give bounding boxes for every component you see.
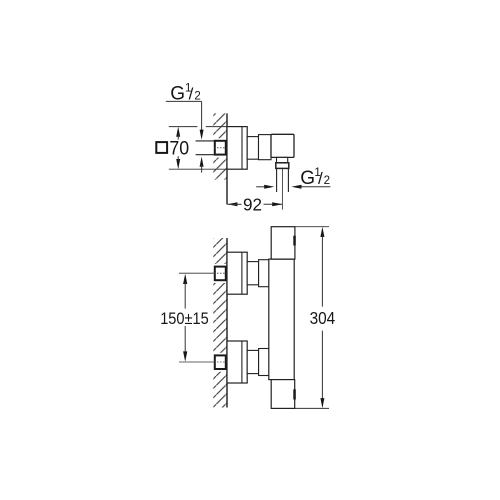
- G 1/2 outlet dimension arrows: [256, 185, 330, 189]
- arrow up to inlet: [200, 157, 204, 173]
- svg-text:70: 70: [169, 138, 189, 160]
- shaft section 1 (top drawing): [247, 137, 258, 160]
- shaft section 1 (lower): [247, 350, 258, 373]
- label G 1/2 (right): [300, 167, 330, 189]
- white clearance around upper nipple: [212, 264, 227, 283]
- shaft section 2 (lower): [259, 349, 270, 376]
- extension line 304 bottom: [295, 407, 329, 409]
- button top cap: [293, 236, 296, 246]
- dimension 92 line left: [227, 202, 241, 206]
- wall surface line (top drawing): [226, 113, 228, 204]
- shaft section 2 (upper): [259, 260, 270, 287]
- shaft section 1 (upper): [247, 262, 258, 285]
- leader line of G 1/2 (top): [166, 101, 202, 131]
- valve body square (top drawing): [271, 134, 294, 157]
- arrow down to inlet: [200, 130, 204, 140]
- svg-text:G: G: [300, 168, 315, 189]
- supply pipe stub in wall: [196, 141, 215, 155]
- label 92: [243, 194, 262, 214]
- dimension extension line, 70 top: [169, 126, 198, 128]
- flange escutcheon (top drawing): [227, 127, 247, 170]
- center line upper connection: [179, 272, 214, 274]
- svg-text:/: /: [318, 169, 323, 188]
- arrow up, 70 dimension: [176, 127, 180, 140]
- flange escutcheon (upper): [227, 252, 247, 294]
- shaft section 2 (top drawing): [259, 135, 272, 160]
- label 304: [310, 308, 336, 328]
- svg-text:304: 304: [310, 308, 336, 328]
- inlet nipple square (upper): [214, 267, 229, 281]
- wall surface line (bottom drawing): [226, 238, 228, 408]
- wall hatch (bottom drawing): [213, 238, 226, 408]
- dimension extension line, 70 bottom: [169, 168, 227, 170]
- square symbol of label 70: [156, 142, 167, 153]
- svg-text:2: 2: [324, 175, 330, 187]
- label G 1/2 (top): [170, 82, 201, 104]
- mixer body top cap: [271, 227, 295, 259]
- center line lower connection: [179, 361, 214, 363]
- outlet pipe center line: [281, 169, 283, 210]
- svg-text:/: /: [189, 84, 194, 103]
- mixer body main column: [269, 259, 294, 380]
- svg-text:150±15: 150±15: [160, 310, 209, 328]
- outlet step below valve: [277, 157, 288, 162]
- svg-text:2: 2: [194, 90, 200, 102]
- inlet nipple square (lower): [214, 355, 229, 369]
- dimension 92 line right: [264, 202, 283, 206]
- arrow down, 70 dimension: [176, 156, 180, 169]
- outlet nut: [276, 163, 289, 169]
- wall hatch (top drawing): [213, 113, 226, 179]
- label 70: [169, 138, 189, 160]
- extension line 304 top: [295, 226, 329, 228]
- outlet pipe: [277, 168, 289, 192]
- dimension 150±15 arrows and line: [183, 274, 187, 362]
- label 150±15: [160, 310, 209, 328]
- inlet nipple square (top drawing): [214, 141, 229, 155]
- flange escutcheon (lower): [227, 341, 247, 383]
- mixer body bottom cap: [271, 380, 295, 409]
- dimension 304 line and arrows: [320, 227, 324, 408]
- white clearance around inlet nipple: [212, 138, 227, 157]
- white clearance around lower nipple: [212, 353, 227, 372]
- button bottom cap: [293, 389, 296, 399]
- svg-text:92: 92: [243, 194, 262, 214]
